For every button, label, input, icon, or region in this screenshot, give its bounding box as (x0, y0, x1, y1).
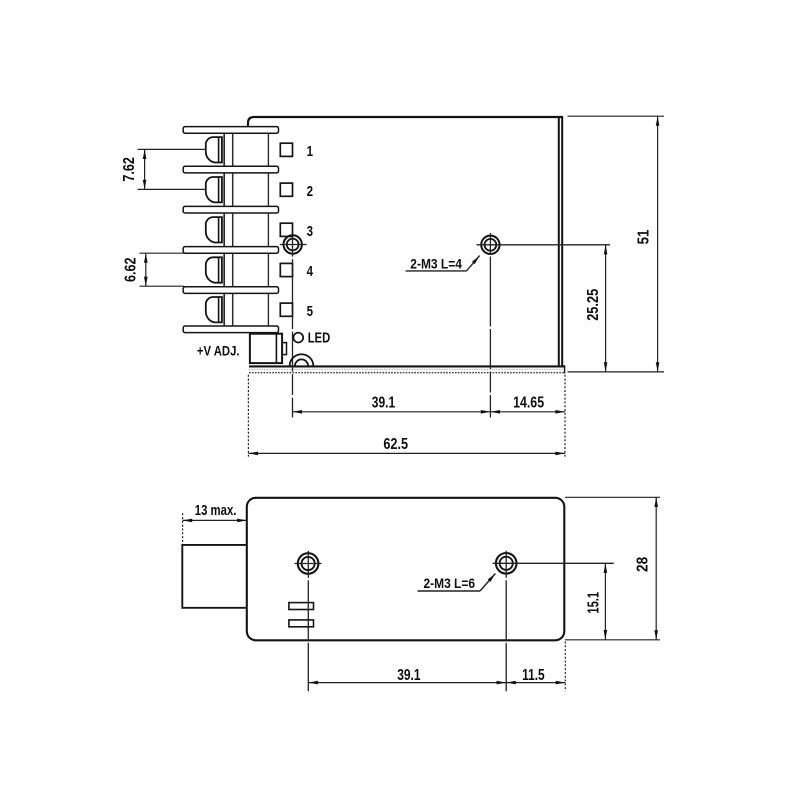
svg-text:LED: LED (308, 331, 331, 347)
svg-text:25.25: 25.25 (585, 288, 602, 320)
dim 7.62 extension lines (138, 149, 206, 189)
dim 39.1 top (293, 411, 491, 413)
terminal cell 3 body lines (224, 214, 268, 246)
dim 13 max extension line (182, 513, 184, 544)
mounting hole top-right (481, 236, 499, 254)
top view bottom mounting rail (249, 365, 565, 373)
dim 13 max (183, 519, 247, 521)
terminal screw 5 (206, 297, 222, 322)
terminal cell 1 body lines (224, 134, 268, 166)
top view chassis body outline (248, 117, 563, 129)
svg-text:11.5: 11.5 (522, 667, 545, 684)
dim 15.1 (604, 563, 606, 639)
extension line from bottom-left hole down (307, 551, 309, 692)
svg-text:39.1: 39.1 (397, 667, 421, 684)
dim 39.1 bottom (308, 682, 506, 684)
extension line right edge bottom view (564, 642, 566, 692)
dim 28 (655, 497, 657, 640)
dim 62.5 (248, 452, 565, 454)
mounting hole top-left (284, 235, 302, 253)
dim 6.62 (145, 253, 147, 286)
extension line from top-left hole down (292, 236, 294, 418)
svg-text:6.62: 6.62 (123, 257, 140, 282)
terminal screw 1 (206, 137, 222, 162)
dim 11.5 bottom (506, 682, 565, 684)
terminal block separator bars (183, 127, 278, 333)
svg-text:14.65: 14.65 (513, 395, 544, 412)
extension lines for 62.5 (248, 375, 565, 458)
bottom hole right (496, 553, 517, 574)
dim 7.62 (144, 149, 146, 189)
svg-text:13 max.: 13 max. (195, 502, 237, 519)
dim 6.62 extension lines (140, 253, 185, 286)
terminal screw 4 (206, 257, 222, 282)
svg-text:2-M3 L=6: 2-M3 L=6 (424, 575, 476, 591)
svg-text:2-M3 L=4: 2-M3 L=4 (410, 256, 462, 272)
pin numbers 1-5 (307, 143, 314, 320)
svg-text:62.5: 62.5 (383, 436, 408, 453)
top view chassis right edge (double line) (559, 117, 562, 366)
extension line from top-right hole down (489, 233, 491, 418)
strain relief bump on rail (290, 354, 314, 366)
svg-text:2: 2 (307, 183, 313, 200)
extension line from bottom-right hole down (505, 551, 507, 692)
extension lines for 28 (565, 497, 660, 640)
dim 14.65 top (490, 411, 565, 413)
bottom hole left (298, 553, 319, 574)
dim 25.25 (605, 245, 607, 372)
vent slots (289, 603, 314, 627)
terminal screw 3 (206, 217, 222, 242)
svg-text:51: 51 (636, 229, 653, 244)
svg-text:7.62: 7.62 (121, 157, 138, 182)
svg-text:39.1: 39.1 (372, 395, 396, 412)
svg-text:15.1: 15.1 (586, 592, 603, 614)
svg-text:3: 3 (307, 223, 313, 240)
input terminal protrusion (182, 545, 247, 608)
terminal cell 5 body lines (224, 294, 268, 325)
terminal cell 4 body lines (224, 254, 268, 286)
potentiometer +V ADJ (250, 334, 287, 363)
LED indicator (293, 333, 303, 343)
dim 51 (657, 116, 659, 372)
svg-text:1: 1 (307, 143, 313, 160)
terminal screw 2 (206, 177, 222, 202)
svg-text:+V ADJ.: +V ADJ. (197, 343, 240, 359)
pin squares 1-5 (280, 143, 292, 316)
svg-text:28: 28 (634, 556, 651, 572)
extension lines for 51 (568, 116, 665, 372)
bottom view body outline (247, 498, 565, 641)
terminal cell 2 body lines (224, 174, 268, 206)
svg-text:4: 4 (307, 263, 314, 280)
svg-text:5: 5 (307, 303, 313, 320)
